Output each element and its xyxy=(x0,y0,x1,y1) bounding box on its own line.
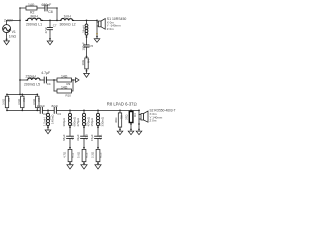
wire L4 to C5 xyxy=(86,35,88,45)
node R12 top xyxy=(83,147,85,149)
svg-text:330mΩ: 330mΩ xyxy=(101,116,105,126)
svg-text:C10: C10 xyxy=(84,134,88,140)
node S1 corner xyxy=(96,20,98,22)
node input mid xyxy=(19,20,21,22)
resistor R8 LPAD shunt xyxy=(118,113,121,127)
svg-text:R4: R4 xyxy=(87,59,91,63)
node R11 top xyxy=(69,147,71,149)
svg-text:5.6Ω: 5.6Ω xyxy=(76,151,80,158)
node chain1 ground xyxy=(69,162,71,164)
wire trap upper xyxy=(86,20,88,24)
wire R10 right xyxy=(72,80,74,91)
capacitor C5 xyxy=(84,45,89,47)
svg-text:C9: C9 xyxy=(70,135,74,139)
node generator ground xyxy=(6,38,8,40)
svg-text:68µF: 68µF xyxy=(62,134,66,141)
svg-text:220µH: 220µH xyxy=(26,75,37,79)
wire R13 bottom xyxy=(97,162,99,165)
node R3 ground xyxy=(130,129,132,131)
wire C4 to split xyxy=(46,79,57,81)
wire R3 bottom xyxy=(130,123,132,132)
svg-text:C11: C11 xyxy=(98,134,102,139)
wire R4 bottom xyxy=(86,69,88,73)
wire input rail vertical xyxy=(19,8,21,94)
wire L5 to C4 xyxy=(40,79,44,81)
ground chain2 xyxy=(81,165,87,169)
node bank R6 bottom xyxy=(21,110,23,112)
svg-text:3.9Ω: 3.9Ω xyxy=(2,98,6,105)
wire bottom rail left xyxy=(7,109,40,111)
resistor R10 xyxy=(57,89,72,93)
node bank R5 bottom xyxy=(6,110,8,112)
resistor R2 xyxy=(26,6,37,10)
wire split left vertical xyxy=(53,80,55,91)
terminal arrow xyxy=(76,78,79,83)
resistor R7 xyxy=(36,96,39,108)
node L8 bottom xyxy=(83,126,85,128)
ground chain3 xyxy=(95,165,101,169)
resistor R11 xyxy=(68,149,72,161)
capacitor C11 xyxy=(95,136,102,138)
wire R5 top lead xyxy=(6,94,8,96)
node bank R6 top xyxy=(21,94,23,96)
node chain2 ground xyxy=(83,162,85,164)
wire chain3 upper xyxy=(97,110,99,113)
node trap top xyxy=(86,20,88,22)
svg-text:4.7µF: 4.7µF xyxy=(41,71,50,75)
svg-text:10Ω: 10Ω xyxy=(81,59,85,65)
svg-text:680nF: 680nF xyxy=(42,3,52,7)
svg-text:3.9Ω: 3.9Ω xyxy=(17,98,21,105)
capacitor C3 xyxy=(54,108,56,114)
resistor R5 xyxy=(5,96,8,108)
wire bank top rail xyxy=(7,93,37,95)
wire C2 to C3 xyxy=(42,109,54,111)
node C7 ground xyxy=(49,38,51,40)
wire L6 upper xyxy=(47,110,49,113)
capacitor C9 xyxy=(67,136,74,138)
svg-text:15µF: 15µF xyxy=(90,134,94,141)
svg-text:Z 0m: Z 0m xyxy=(150,119,157,123)
node S2 ground xyxy=(138,129,140,131)
node L4 bottom xyxy=(86,36,88,38)
svg-text:270µH: 270µH xyxy=(76,118,80,127)
node S1 ground xyxy=(96,33,98,35)
wire R11 bottom xyxy=(69,162,71,165)
wire generator to rail xyxy=(7,19,20,21)
wire C7 upper lead xyxy=(49,20,51,27)
svg-text:C4: C4 xyxy=(47,82,51,86)
svg-text:R6: R6 xyxy=(22,97,26,101)
wire R6 bottom lead xyxy=(21,108,23,111)
svg-text:R8 LPAD 6-37Ω: R8 LPAD 6-37Ω xyxy=(107,101,137,106)
ground S2 xyxy=(136,131,142,135)
svg-text:14Ω: 14Ω xyxy=(61,85,68,89)
wire generator bottom xyxy=(6,33,8,41)
wire L9 to C11 xyxy=(97,126,99,137)
wire R10 left xyxy=(54,90,57,92)
resistor R13 xyxy=(96,149,100,161)
svg-text:14Ω: 14Ω xyxy=(28,3,35,7)
resistor R6 xyxy=(21,96,24,108)
ground trap xyxy=(84,73,90,77)
resistor R4 xyxy=(85,58,88,69)
svg-text:R5: R5 xyxy=(7,97,11,101)
inductor L4 xyxy=(87,24,88,35)
resistor R3 highlighted xyxy=(129,112,133,123)
svg-text:R8: R8 xyxy=(120,115,124,119)
generator U1 2.83V xyxy=(3,25,11,33)
wire C10 to R12 xyxy=(83,138,85,149)
node bank R7 top xyxy=(36,94,38,96)
node top corner xyxy=(19,7,21,9)
inductor L5 xyxy=(27,78,40,80)
wire C11 to R13 xyxy=(97,138,99,149)
node input lower branch xyxy=(19,79,21,81)
node bank R5 top xyxy=(6,94,8,96)
svg-text:30Ω: 30Ω xyxy=(114,117,118,123)
svg-text:140mΩ: 140mΩ xyxy=(51,114,55,124)
ground R3 xyxy=(128,131,134,135)
svg-text:C7: C7 xyxy=(53,23,57,27)
node chain2 top xyxy=(83,110,85,112)
svg-text:4.7Ω: 4.7Ω xyxy=(62,151,66,158)
svg-text:2.2Ω: 2.2Ω xyxy=(90,151,94,158)
node R4 ground xyxy=(86,70,88,72)
node top branch return xyxy=(56,20,58,22)
svg-text:L4: L4 xyxy=(85,25,89,29)
wire R2 to C8 xyxy=(37,7,45,9)
svg-text:240µF: 240µF xyxy=(37,104,45,108)
wire R9 right xyxy=(72,79,76,81)
wire chain1 upper xyxy=(69,110,71,113)
wire C7 lower lead xyxy=(49,30,51,41)
svg-text:R12: R12 xyxy=(85,152,89,158)
inductor L9 xyxy=(98,113,100,125)
capacitor C8 xyxy=(45,5,47,11)
svg-text:200mΩ L5: 200mΩ L5 xyxy=(24,82,40,86)
svg-text:R13: R13 xyxy=(99,152,103,158)
wire C5 to R4 xyxy=(86,47,88,58)
node chain3 ground xyxy=(97,162,99,164)
wire C9 to R11 xyxy=(69,138,71,149)
inductor L6 xyxy=(48,113,50,125)
wire bottom rail right xyxy=(56,109,139,111)
node LPAD ground xyxy=(119,129,121,131)
node C7 top xyxy=(49,20,51,22)
node split left xyxy=(53,79,55,81)
inductor L2 xyxy=(61,18,74,20)
svg-text:R3: R3 xyxy=(133,113,137,117)
node L9 bottom xyxy=(97,126,99,128)
svg-text:14Ω: 14Ω xyxy=(61,74,68,78)
wire R3 upper xyxy=(130,110,132,111)
wire chain2 upper xyxy=(83,110,85,113)
node L6 top xyxy=(47,110,49,112)
speaker S2 xyxy=(139,111,148,122)
ground generator xyxy=(4,41,10,45)
node L7 bottom xyxy=(69,126,71,128)
svg-text:V1: V1 xyxy=(12,30,16,34)
wire generator top stub xyxy=(6,20,8,24)
svg-text:82µF: 82µF xyxy=(52,104,59,108)
wire LPAD bottom xyxy=(119,127,121,131)
capacitor C2 xyxy=(40,108,42,114)
svg-text:Z 0m: Z 0m xyxy=(107,27,114,31)
inductor L1 xyxy=(26,18,43,20)
wire speaker S1 drop xyxy=(96,20,98,38)
svg-text:390µH: 390µH xyxy=(62,118,66,127)
node L6 bottom xyxy=(47,126,49,128)
node R4 top xyxy=(86,56,88,58)
svg-text:300mΩ L2: 300mΩ L2 xyxy=(60,23,76,27)
wire L2 to speaker xyxy=(74,19,98,21)
svg-text:200mΩ L1: 200mΩ L1 xyxy=(26,23,42,27)
ground chain1 xyxy=(67,165,73,169)
node R3 top xyxy=(130,110,132,112)
ground L6 xyxy=(45,130,51,134)
svg-text:150µH: 150µH xyxy=(90,118,94,127)
ground LPAD xyxy=(117,131,123,135)
node S2 corner xyxy=(138,110,140,112)
svg-text:37Ω: 37Ω xyxy=(125,114,129,120)
node join right xyxy=(72,79,74,81)
svg-text:C3: C3 xyxy=(57,112,61,116)
resistor R9 xyxy=(57,78,72,82)
inductor L7 xyxy=(70,113,72,125)
wire L6 ground lead xyxy=(47,126,49,130)
svg-text:1.5mH: 1.5mH xyxy=(42,117,46,126)
node chain3 top xyxy=(97,110,99,112)
ground C7 xyxy=(47,41,53,45)
wire speaker S2 drop xyxy=(138,110,140,131)
node R3 bottom xyxy=(130,123,132,125)
ground S1 xyxy=(94,39,100,43)
wire branch L5 xyxy=(20,79,27,81)
wire C8 to corner xyxy=(47,8,57,20)
wire R7 bottom lead xyxy=(36,108,38,111)
wire R5 bottom lead xyxy=(6,108,8,111)
svg-text:47µF: 47µF xyxy=(44,27,48,34)
svg-text:C8: C8 xyxy=(48,10,52,14)
svg-text:C5: C5 xyxy=(89,44,93,48)
inductor L8 xyxy=(84,113,86,125)
wire top branch left xyxy=(20,7,26,9)
speaker S1 xyxy=(97,19,105,30)
wire R6 top lead xyxy=(21,94,23,96)
wire L1 to L2 xyxy=(43,19,61,21)
svg-text:3.9Ω: 3.9Ω xyxy=(32,98,36,105)
svg-text:8mH: 8mH xyxy=(31,14,39,18)
node top branch corner xyxy=(56,7,58,9)
svg-text:R10: R10 xyxy=(66,93,72,97)
wire L8 to C10 xyxy=(83,126,85,137)
svg-text:2.83V: 2.83V xyxy=(4,19,14,23)
capacitor C4 xyxy=(44,77,46,83)
node LPAD top xyxy=(119,110,121,112)
resistor R12 xyxy=(82,149,86,161)
capacitor C10 xyxy=(81,136,88,138)
wire R12 bottom xyxy=(83,162,85,165)
svg-text:1mH: 1mH xyxy=(64,14,72,18)
svg-text:C2: C2 xyxy=(43,112,47,116)
svg-text:1mΩ: 1mΩ xyxy=(9,35,17,39)
svg-text:R11: R11 xyxy=(71,153,75,158)
svg-text:R7: R7 xyxy=(37,97,41,101)
svg-text:100µF: 100µF xyxy=(81,42,85,50)
capacitor C7 xyxy=(48,28,53,30)
node chain1 top xyxy=(69,110,71,112)
wire bank feed xyxy=(19,94,21,96)
svg-text:33µF: 33µF xyxy=(76,134,80,141)
node R13 top xyxy=(97,147,99,149)
wire LPAD upper xyxy=(119,110,121,113)
node S2 lower xyxy=(138,123,140,125)
node bank R7 bottom xyxy=(36,110,38,112)
wire R7 top lead xyxy=(36,94,38,96)
wire L7 to C9 xyxy=(69,126,71,137)
